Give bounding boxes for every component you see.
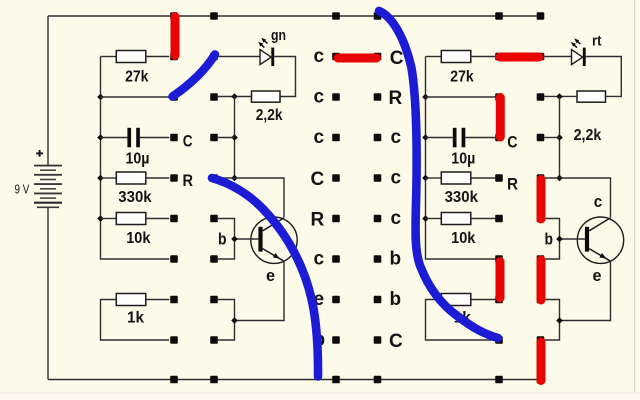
wire: contact row4 to collector drop (left) bbox=[218, 178, 284, 217]
svg-text:R: R bbox=[507, 175, 518, 193]
svg-text:330k: 330k bbox=[118, 189, 152, 206]
svg-text:C: C bbox=[389, 331, 403, 352]
battery B1 9V bbox=[34, 166, 62, 208]
wire: vertical 2.2k node bus (right) bbox=[559, 96, 561, 178]
wire: right supply bus bbox=[426, 57, 496, 260]
svg-text:C: C bbox=[311, 169, 325, 190]
capacitor C2 10u (right) bbox=[426, 128, 496, 148]
wire: contact row4 to collector drop (right) bbox=[544, 178, 610, 217]
svg-text:10k: 10k bbox=[451, 230, 476, 247]
scan edge line right bbox=[634, 0, 635, 393]
resistor R4 10k (left) bbox=[101, 213, 170, 225]
junction on right bus row3 bbox=[422, 134, 429, 141]
bottom scan strip bbox=[0, 393, 640, 400]
junction cap node (left) bbox=[231, 134, 238, 141]
svg-text:10µ: 10µ bbox=[126, 151, 150, 168]
junction on left bus row5 bbox=[97, 215, 104, 222]
blue marker: long curve top rail to 1k contact (middle) bbox=[379, 11, 498, 338]
svg-text:27k: 27k bbox=[450, 69, 474, 86]
svg-text:c: c bbox=[391, 168, 402, 189]
wire: contact to LED anode (left) bbox=[218, 56, 260, 58]
svg-text:c: c bbox=[594, 192, 603, 211]
svg-text:R: R bbox=[389, 88, 403, 109]
svg-text:C: C bbox=[507, 133, 517, 151]
resistor R6 27k (right) bbox=[426, 51, 496, 63]
svg-text:R: R bbox=[311, 210, 325, 231]
wire: emitter bracket contacts rows 7-8 (right) bbox=[544, 300, 559, 341]
resistor R9 10k (right) bbox=[426, 213, 496, 225]
wire: battery negative to bottom rail bbox=[47, 207, 49, 379]
svg-text:C: C bbox=[390, 48, 404, 69]
svg-text:c: c bbox=[314, 127, 325, 148]
battery plus sign bbox=[36, 150, 43, 157]
red marker: right column2 rows 4-5 bbox=[537, 180, 546, 220]
svg-text:b: b bbox=[545, 230, 554, 249]
blue marker: arc contact row2 to LED contact (left) bbox=[173, 55, 216, 97]
svg-text:c: c bbox=[391, 127, 402, 148]
wire: base bracket contacts rows 5-6 (right) bbox=[544, 219, 559, 260]
resistor R2 2.2k (left) bbox=[252, 91, 281, 102]
wire: emitter down to bracket (right) bbox=[560, 261, 611, 320]
wire: bottom supply rail bbox=[48, 379, 541, 381]
junction on right bus row5 bbox=[422, 215, 429, 222]
terminal strip: right column 1 contact squares bbox=[495, 12, 503, 383]
wire: contact row3 to vertical (left) bbox=[218, 137, 235, 139]
wire: battery positive to top rail bbox=[47, 16, 49, 166]
svg-text:b: b bbox=[390, 289, 402, 310]
svg-text:2,2k: 2,2k bbox=[574, 127, 602, 144]
svg-text:C: C bbox=[183, 132, 193, 150]
svg-text:9 V: 9 V bbox=[15, 183, 30, 197]
junction emitter node (left) bbox=[231, 317, 238, 324]
capacitor C1 10u (left) bbox=[101, 128, 170, 148]
svg-text:b: b bbox=[218, 230, 227, 249]
svg-text:rt: rt bbox=[592, 33, 602, 50]
junction on right bus row2 bbox=[422, 94, 429, 101]
wire: top supply rail bbox=[48, 15, 541, 17]
red marker: right column1 rows 6-7 bbox=[496, 262, 505, 299]
svg-text:c: c bbox=[314, 87, 325, 108]
svg-text:c: c bbox=[391, 208, 402, 229]
junction collector node (right) bbox=[556, 175, 563, 182]
scan edge line bottom bbox=[0, 393, 640, 394]
svg-text:10µ: 10µ bbox=[451, 151, 475, 168]
svg-text:b: b bbox=[390, 249, 402, 270]
terminal strip: middle column 2 contact squares bbox=[374, 12, 382, 383]
junction base node (right) bbox=[556, 236, 563, 243]
junction on left bus row2 bbox=[97, 94, 104, 101]
svg-text:1k: 1k bbox=[127, 309, 144, 326]
junction on left bus row3 bbox=[97, 134, 104, 141]
svg-text:gn: gn bbox=[271, 27, 286, 44]
LED D2 rt (red) bbox=[571, 38, 586, 66]
junction 2.2k node (right) bbox=[556, 93, 563, 100]
svg-text:R: R bbox=[183, 172, 194, 190]
wire: LED cathode down to 2.2k (left) bbox=[274, 57, 295, 97]
wire: emitter down to bracket (left) bbox=[235, 261, 285, 320]
node letters middle-left column bbox=[311, 46, 326, 351]
svg-text:330k: 330k bbox=[445, 189, 479, 206]
junction 2.2k node (left) bbox=[231, 93, 238, 100]
wire: left bus row2 to contact bbox=[101, 96, 170, 98]
terminal strip: left column 2 contact squares bbox=[210, 12, 218, 383]
red marker: top rail to 27k contact (left) bbox=[171, 17, 180, 56]
terminal strip: middle column 1 contact squares bbox=[332, 12, 340, 383]
junction on left bus row4 bbox=[97, 175, 104, 182]
node letters middle-right column bbox=[389, 48, 404, 352]
resistor R3 330k (left) bbox=[101, 172, 170, 184]
resistor R10 1k (right) bbox=[426, 294, 496, 341]
transistor Q1 (left) bbox=[235, 217, 298, 263]
junction base node (left) bbox=[231, 236, 238, 243]
svg-text:10k: 10k bbox=[126, 230, 151, 247]
junction emitter node (right) bbox=[556, 317, 563, 324]
blue marker: long curve R contact to bottom rail (left) bbox=[212, 178, 318, 377]
svg-text:e: e bbox=[266, 266, 275, 285]
wire: right bus row2 to contact bbox=[426, 96, 496, 98]
svg-text:2,2k: 2,2k bbox=[256, 107, 283, 124]
junction on right bus row4 bbox=[422, 175, 429, 182]
resistor R8 330k (right) bbox=[426, 172, 496, 184]
resistor R1 27k (left) bbox=[101, 51, 170, 63]
red marker: middle row1 bridge bbox=[338, 54, 377, 63]
wire: base bracket contacts rows 5-6 (left) bbox=[218, 219, 235, 260]
wire: 2.2k to contacts (left) bbox=[218, 96, 252, 98]
LED D1 gn (green) bbox=[258, 38, 274, 66]
junction cap node (right) bbox=[556, 134, 563, 141]
svg-text:c: c bbox=[314, 46, 325, 67]
svg-text:c: c bbox=[314, 249, 325, 270]
wire: contact row3 to vertical (right) bbox=[544, 137, 559, 139]
red marker: right row1 bridge bbox=[500, 53, 539, 62]
wire: vertical 2.2k node bus (left) bbox=[234, 97, 236, 179]
terminal strip: left column 1 contact squares bbox=[170, 12, 178, 383]
svg-text:27k: 27k bbox=[125, 69, 149, 86]
wire: left supply bus bbox=[101, 57, 170, 260]
wire: emitter bracket contacts rows 7-8 (left) bbox=[218, 300, 235, 341]
resistor R5 1k (left) bbox=[101, 294, 170, 341]
wire: LED cathode down to 2.2k (right) bbox=[586, 57, 622, 97]
resistor R7 2.2k (right) bbox=[577, 91, 606, 102]
svg-text:e: e bbox=[593, 266, 602, 285]
junction collector node (left) bbox=[231, 175, 238, 182]
wire: 2.2k to contacts (right) bbox=[544, 95, 577, 97]
red marker: right column2 row8 to bottom rail bbox=[537, 342, 546, 381]
red marker: right column1 rows 2-3 bbox=[496, 98, 505, 138]
red marker: right column2 rows 6-7 bbox=[537, 260, 546, 300]
wire: contact to LED anode (right) bbox=[544, 56, 571, 58]
terminal strip: right column 2 contact squares bbox=[537, 12, 545, 383]
transistor Q2 (right) bbox=[560, 217, 624, 263]
